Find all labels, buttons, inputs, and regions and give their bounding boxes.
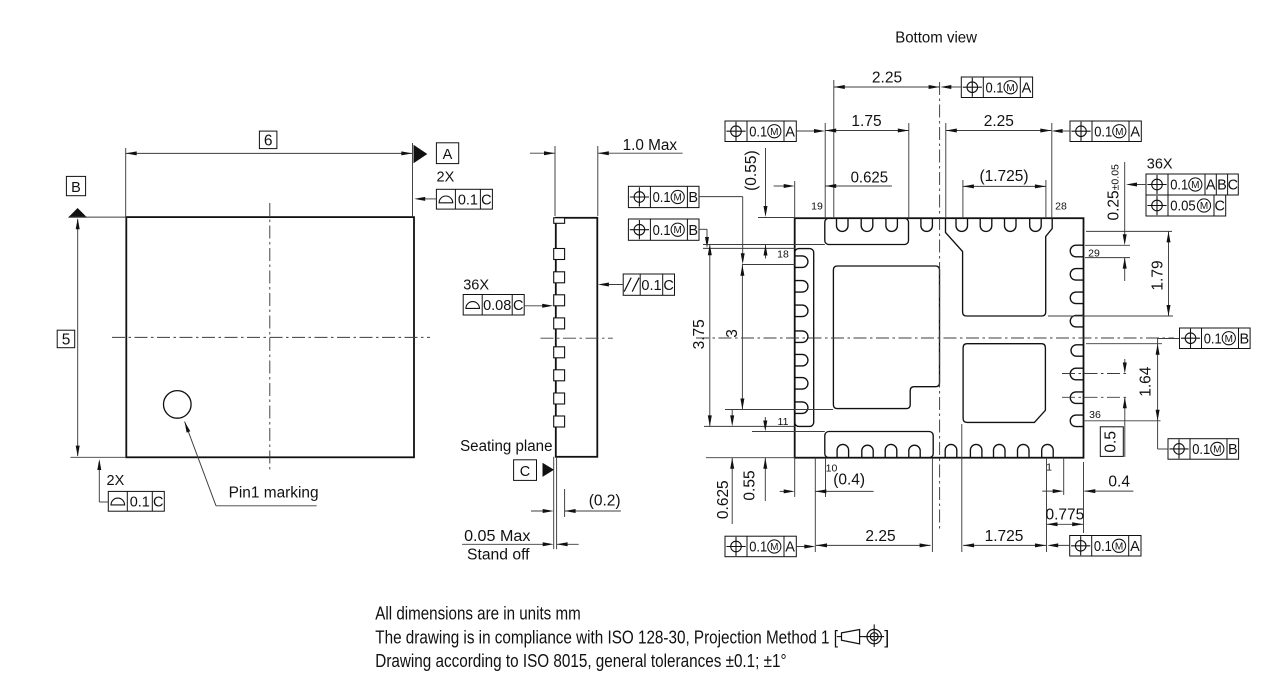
svg-text:M: M	[674, 193, 682, 204]
svg-text:3: 3	[724, 329, 741, 338]
svg-text:C: C	[481, 192, 491, 208]
svg-text:Drawing according to ISO 8015,: Drawing according to ISO 8015, general t…	[375, 651, 786, 671]
svg-text:2.25: 2.25	[872, 70, 902, 87]
svg-text:M: M	[1200, 201, 1208, 212]
svg-text:0.1: 0.1	[1094, 538, 1112, 555]
svg-text:2X: 2X	[437, 170, 455, 186]
svg-text:A: A	[1130, 124, 1140, 140]
svg-text:Pin1 marking: Pin1 marking	[229, 485, 319, 502]
svg-text:0.1: 0.1	[1170, 177, 1188, 194]
svg-text:0.1: 0.1	[1094, 123, 1112, 140]
svg-text:A: A	[1130, 539, 1140, 555]
svg-text:36X: 36X	[463, 278, 489, 294]
svg-text:C: C	[513, 298, 523, 314]
svg-text:C: C	[663, 278, 673, 294]
svg-text:A: A	[443, 147, 453, 163]
svg-text:(0.4): (0.4)	[833, 472, 865, 489]
svg-text:0.1: 0.1	[653, 189, 671, 206]
svg-text:B: B	[1228, 442, 1238, 458]
svg-text:18: 18	[777, 249, 789, 261]
svg-text:B: B	[688, 190, 698, 206]
svg-text:0.1: 0.1	[1204, 330, 1222, 347]
svg-text:A: A	[1022, 81, 1032, 97]
svg-text:0.1: 0.1	[641, 278, 661, 294]
svg-text:19: 19	[811, 201, 823, 213]
svg-text:28: 28	[1055, 201, 1067, 213]
svg-text:5: 5	[62, 332, 71, 349]
svg-text:C: C	[1228, 178, 1238, 194]
svg-text:M: M	[1225, 334, 1233, 345]
svg-text:3.75: 3.75	[691, 319, 708, 349]
svg-text:1: 1	[1046, 462, 1052, 474]
svg-text:Bottom view: Bottom view	[895, 30, 977, 47]
svg-text:B: B	[71, 180, 81, 196]
svg-text:A: A	[785, 124, 795, 140]
svg-text:2.25: 2.25	[984, 113, 1014, 130]
svg-text:2.25: 2.25	[865, 528, 895, 545]
svg-text:29: 29	[1088, 248, 1100, 260]
svg-text:1.75: 1.75	[851, 113, 881, 130]
svg-text:10: 10	[826, 463, 838, 475]
svg-text:M: M	[770, 542, 778, 553]
svg-text:0.05 Max: 0.05 Max	[464, 528, 531, 545]
svg-text:A: A	[785, 540, 795, 556]
svg-text:B: B	[1239, 331, 1249, 347]
svg-text:A: A	[1206, 178, 1216, 194]
svg-text:M: M	[1115, 127, 1123, 138]
svg-text:2X: 2X	[107, 473, 125, 489]
svg-text:(1.725): (1.725)	[979, 168, 1028, 185]
svg-text:M: M	[770, 127, 778, 138]
svg-text:C: C	[520, 464, 530, 480]
svg-text:0.625: 0.625	[851, 170, 889, 187]
svg-text:0.05: 0.05	[1170, 198, 1196, 215]
svg-text:M: M	[1115, 541, 1123, 552]
svg-text:1.0 Max: 1.0 Max	[623, 137, 678, 154]
svg-text:B: B	[688, 223, 698, 239]
svg-text:0.1: 0.1	[1192, 441, 1210, 458]
svg-text:All dimensions are in units mm: All dimensions are in units mm	[375, 604, 580, 624]
svg-text:6: 6	[264, 132, 273, 149]
svg-text:(0.2): (0.2)	[589, 493, 621, 510]
svg-text:36X: 36X	[1147, 157, 1173, 173]
svg-text:The drawing is in compliance w: The drawing is in compliance with ISO 12…	[375, 627, 838, 647]
svg-text:0.5: 0.5	[1103, 431, 1120, 453]
svg-text:0.4: 0.4	[1108, 474, 1130, 491]
svg-text:0.1: 0.1	[458, 192, 478, 208]
svg-text:C: C	[153, 495, 163, 511]
svg-text:1.64: 1.64	[1138, 366, 1155, 397]
svg-text:0.1: 0.1	[130, 495, 150, 511]
svg-text:0.1: 0.1	[749, 123, 767, 140]
svg-text:0.1: 0.1	[749, 539, 767, 556]
svg-text:11: 11	[778, 416, 789, 428]
svg-text:0.625: 0.625	[715, 480, 732, 519]
svg-text:M: M	[1191, 180, 1199, 191]
svg-text:M: M	[1006, 83, 1014, 94]
svg-text:1.79: 1.79	[1150, 260, 1167, 290]
svg-text:0.1: 0.1	[653, 222, 671, 239]
svg-text:B: B	[1217, 178, 1227, 194]
svg-text:M: M	[1213, 445, 1221, 456]
svg-text:36: 36	[1089, 409, 1101, 421]
svg-text:0.55: 0.55	[742, 470, 759, 500]
svg-text:0.08: 0.08	[483, 298, 511, 314]
svg-text:Seating plane: Seating plane	[460, 438, 552, 455]
svg-text:]: ]	[884, 627, 889, 647]
svg-text:0.1: 0.1	[986, 80, 1004, 97]
svg-text:0.775: 0.775	[1046, 507, 1085, 524]
svg-text:Stand off: Stand off	[467, 547, 530, 564]
svg-text:1.725: 1.725	[985, 528, 1024, 545]
svg-text:(0.55): (0.55)	[743, 150, 760, 191]
svg-text:M: M	[674, 225, 682, 236]
svg-text:C: C	[1215, 199, 1225, 215]
